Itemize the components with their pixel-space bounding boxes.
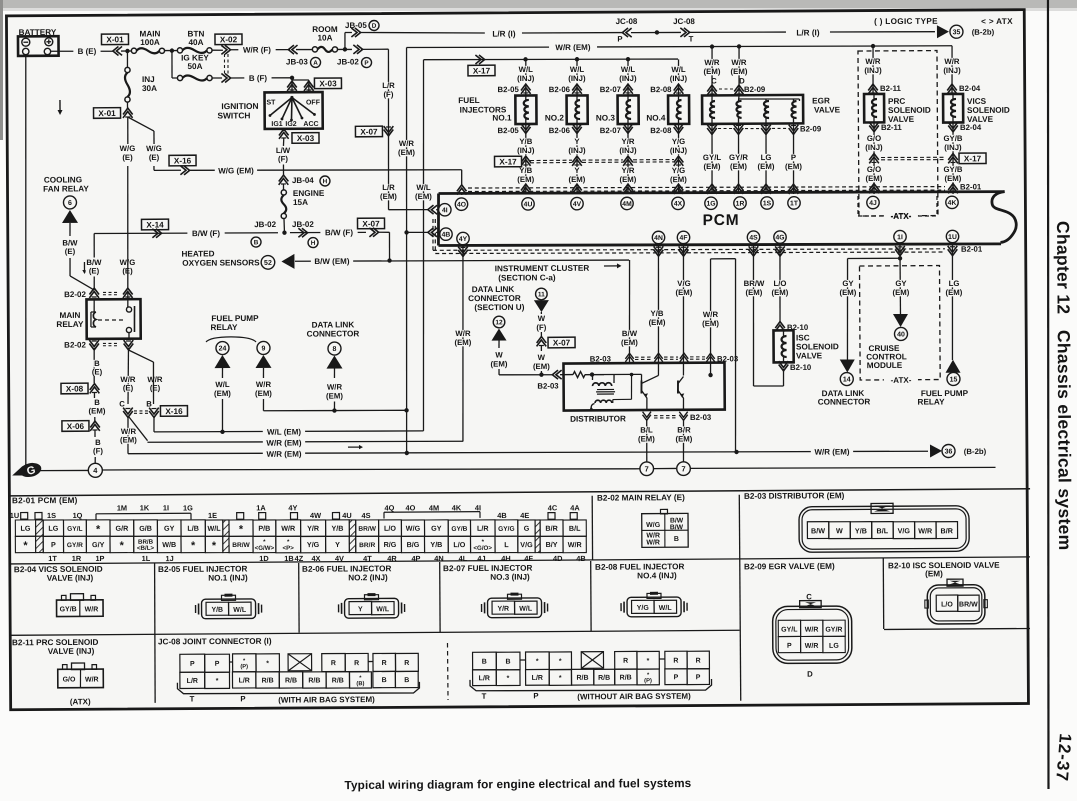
svg-text:GY/B: GY/B [943,134,962,143]
svg-text:12-37: 12-37 [1052,733,1075,783]
svg-text:15: 15 [950,377,958,384]
svg-text:4A: 4A [570,503,580,512]
svg-text:*: * [559,675,562,682]
svg-text:W/G: W/G [120,144,136,153]
wire B/W(E) to main relay [69,258,71,276]
svg-text:B/L: B/L [640,425,653,434]
svg-text:P: P [674,674,679,681]
svg-text:1G: 1G [706,201,715,208]
svg-text:V/G: V/G [677,279,690,288]
svg-text:B2-08: B2-08 [650,126,672,135]
EGR bottom bus B2-09 [707,125,717,131]
svg-text:(EM): (EM) [731,67,748,76]
svg-text:JC-08: JC-08 [616,17,638,26]
distributor transistor Q2 [682,364,684,376]
svg-text:X-07: X-07 [553,338,571,347]
PCM pin 1T [788,197,800,209]
svg-text:(INJ): (INJ) [517,146,535,155]
wires B(F) into ignition switch [291,78,293,93]
svg-text:1A: 1A [256,503,266,512]
connector X-16 upper [154,169,181,171]
flow arrow right [348,446,360,448]
svg-text:(B-2b): (B-2b) [972,28,995,37]
svg-text:(EM): (EM) [704,67,721,76]
svg-text:FUEL PUMP: FUEL PUMP [211,314,259,323]
data link connector pin 14 [840,359,855,372]
svg-text:R/B: R/B [332,677,344,684]
svg-text:Y/R: Y/R [621,166,634,175]
svg-text:GY/R: GY/R [729,153,748,162]
svg-text:B2-11: B2-11 [880,84,902,93]
svg-text:Y: Y [358,606,363,613]
distributor transistor Q1 [657,363,659,375]
svg-text:CONNECTOR: CONNECTOR [818,397,871,406]
svg-text:B2-02: B2-02 [64,340,86,349]
svg-text:W/R (EM): W/R (EM) [555,43,590,52]
svg-text:1R: 1R [736,201,745,208]
svg-text:4D: 4D [553,554,563,563]
svg-text:GY/B: GY/B [451,526,467,533]
svg-text:HEATED: HEATED [181,249,214,258]
wire junction to W/R vertical [334,409,406,412]
svg-text:VALVE: VALVE [796,351,823,360]
wire B/L (EM) to ground pin 7 [646,419,648,462]
fuel injector NO.2 (B2-06) [576,59,578,82]
PCM pin 4K [946,196,958,208]
svg-text:(E): (E) [122,266,133,275]
connector X-17 right [959,153,986,164]
svg-text:SOLENOID: SOLENOID [888,106,931,115]
svg-text:(EM): (EM) [88,406,105,415]
svg-text:JB-02: JB-02 [292,220,314,229]
wire battery negative to ground [23,55,28,470]
svg-text:W/R: W/R [805,643,819,650]
svg-text:R/B: R/B [620,675,632,682]
svg-text:W/R: W/R [704,58,720,67]
svg-text:B (E): B (E) [78,47,97,56]
svg-text:P: P [190,661,195,668]
svg-text:4X: 4X [674,201,683,208]
svg-text:L/R: L/R [239,677,250,684]
svg-text:PCM: PCM [703,212,740,229]
svg-text:1K: 1K [140,503,150,512]
PCM pin 4O [455,198,467,210]
distributor connector tab [871,503,893,513]
svg-text:NO.2: NO.2 [545,114,565,123]
svg-text:X-16: X-16 [174,156,192,165]
svg-text:(EM): (EM) [120,435,137,444]
svg-text:G: G [524,524,530,533]
B2-03 dashed bus [625,353,633,359]
svg-text:W/R (EM): W/R (EM) [266,438,301,447]
svg-text:Y/G: Y/G [672,166,685,175]
svg-text:Y/R: Y/R [307,524,320,533]
wire B/W(EM) to distributor [629,260,630,364]
svg-text:(WITH AIR BAG SYSTEM): (WITH AIR BAG SYSTEM) [278,695,375,705]
svg-text:100A: 100A [140,38,160,47]
svg-text:1J: 1J [166,554,174,563]
svg-text:CONNECTOR: CONNECTOR [307,329,360,338]
svg-text:Y/B: Y/B [331,524,343,533]
svg-text:4N: 4N [654,235,663,242]
svg-text:(F): (F) [536,323,546,332]
svg-text:(INJ): (INJ) [568,74,586,83]
svg-text:DATA LINK: DATA LINK [472,285,515,294]
wire fuse to junction [164,49,179,51]
svg-text:4F: 4F [524,554,533,563]
svg-text:6: 6 [68,200,72,207]
connector X-02 [215,34,242,45]
svg-text:12: 12 [495,319,503,326]
svg-text:RELAY: RELAY [917,397,945,406]
svg-text:A: A [313,60,318,67]
svg-text:Y/G: Y/G [637,605,650,612]
svg-text:B: B [404,677,409,684]
svg-text:30A: 30A [142,84,157,93]
svg-text:MODULE: MODULE [867,361,903,370]
svg-text:(EM): (EM) [398,148,415,157]
svg-text:(E): (E) [65,247,76,256]
svg-text:PRC: PRC [888,97,905,106]
svg-text:(EM): (EM) [785,162,802,171]
svg-text:-ATX-: -ATX- [891,212,912,221]
svg-text:(INJ): (INJ) [865,143,883,152]
svg-text:INJ: INJ [142,75,155,84]
svg-text:W/L: W/L [671,65,686,74]
connector X-17 top [468,65,495,76]
svg-text:R/G: R/G [384,540,397,549]
svg-text:(EM): (EM) [704,162,721,171]
svg-text:(EM): (EM) [619,175,636,184]
svg-text:W/R: W/R [327,382,343,391]
svg-text:P: P [533,691,538,700]
svg-text:NO.4 (INJ): NO.4 (INJ) [637,571,677,580]
connector X-03 lower [283,129,285,131]
svg-text:B2-04: B2-04 [959,84,981,93]
wire W/R (F) [230,48,290,51]
svg-text:W/R: W/R [85,606,99,613]
svg-text:(EM): (EM) [533,362,550,371]
svg-text:4F: 4F [680,235,688,242]
svg-text:(EM): (EM) [621,338,638,347]
svg-text:Y/R: Y/R [621,137,634,146]
svg-text:(EM): (EM) [415,192,432,201]
svg-text:(B): (B) [356,681,364,687]
svg-text:1I: 1I [897,234,903,241]
svg-text:W/R: W/R [568,540,583,549]
svg-text:L/R: L/R [479,675,490,682]
svg-text:B2-01: B2-01 [961,245,983,254]
svg-text:9: 9 [262,345,266,352]
svg-text:W/R: W/R [399,139,415,148]
svg-text:R: R [623,658,628,665]
svg-text:B2-10: B2-10 [790,363,812,372]
svg-text:W/G: W/G [146,144,162,153]
svg-text:(EM): (EM) [702,319,719,328]
svg-text:*: * [507,675,510,682]
fuel pump relay pin 15 [945,360,960,373]
svg-text:(E): (E) [123,383,134,392]
svg-text:B/L: B/L [569,524,581,533]
wire from B down [153,417,155,432]
svg-text:(EM): (EM) [491,359,508,368]
svg-text:B2-07: B2-07 [600,85,621,94]
svg-text:1R: 1R [72,554,82,563]
svg-text:L/O: L/O [384,524,396,533]
svg-text:L/R: L/R [532,675,543,682]
W/R loop to distributor [711,258,736,260]
svg-text:NO.3: NO.3 [596,114,616,123]
PCM connector pin grid [15,520,35,537]
wire 1U LG to fuel pump relay [948,246,958,252]
svg-text:(EM): (EM) [638,434,655,443]
svg-text:CONNECTOR: CONNECTOR [468,294,521,303]
svg-text:(EM): (EM) [925,569,943,578]
junction JB-05 riser [344,32,346,49]
svg-text:L: L [504,540,509,549]
svg-text:4M: 4M [429,503,439,512]
svg-text:4X: 4X [311,554,320,563]
svg-text:L/O: L/O [941,601,953,608]
PCM pin 1G [705,197,717,209]
svg-text:X-17: X-17 [473,66,491,75]
wire W/G (EM) [189,169,462,172]
svg-text:JB-05: JB-05 [345,21,367,30]
EGR valve B2-09 [711,47,714,96]
svg-text:BR/W: BR/W [232,542,250,549]
svg-text:GY/B: GY/B [943,165,962,174]
svg-text:4Y: 4Y [288,503,297,512]
arrow to 36 (B-2b) [930,444,942,457]
svg-text:4O: 4O [457,202,466,209]
svg-text:4B: 4B [576,554,586,563]
svg-text:50A: 50A [187,62,202,71]
svg-text:(INJ): (INJ) [619,74,637,83]
PCM dashed bus above [468,185,945,189]
svg-text:(EM): (EM) [568,175,585,184]
svg-text:JC-08 JOINT CONNECTOR (I): JC-08 JOINT CONNECTOR (I) [158,637,272,647]
labels B/W(E) W/G(E) above main relay [86,259,103,267]
svg-text:B/G: B/G [407,540,420,549]
svg-text:V/G: V/G [898,526,911,535]
fuel pump relay pin 24 [216,341,229,354]
wire to JB-02 junction [283,219,285,233]
svg-text:1P: 1P [95,554,104,563]
svg-text:1U: 1U [10,511,20,520]
svg-text:1I: 1I [163,503,169,512]
svg-text:4B: 4B [497,511,507,520]
wire L/W (F) [282,138,284,146]
svg-text:W/G: W/G [406,524,421,533]
svg-text:X-07: X-07 [360,127,378,136]
svg-text:(INJ): (INJ) [670,146,688,155]
svg-text:C: C [119,400,125,409]
svg-text:GY: GY [431,524,442,533]
arrow to 35 (B-2b) [937,25,949,38]
svg-text:GY/G: GY/G [498,526,515,533]
svg-text:(EM): (EM) [865,174,882,183]
svg-text:W: W [495,351,503,360]
svg-text:X-01: X-01 [106,35,124,44]
PCM right curvy edge [992,192,1016,243]
svg-text:(EM): (EM) [675,434,692,443]
scan edge artifacts [0,0,1077,8]
svg-text:4U: 4U [524,201,533,208]
svg-text:L/O: L/O [773,279,786,288]
connector X-14 [141,219,168,230]
PCM pin 4N [652,231,664,243]
PCM pin 4V [571,197,583,209]
svg-text:(EM): (EM) [758,162,775,171]
svg-text:W/R (EM): W/R (EM) [266,450,301,459]
svg-text:ENGINE: ENGINE [293,189,325,198]
svg-text:4K: 4K [948,200,957,207]
connector X-06 [62,421,89,432]
svg-text:(F): (F) [93,446,103,455]
PCM pin 4F [677,231,689,243]
svg-text:T: T [190,695,195,704]
svg-text:G/B: G/B [139,524,152,533]
pin bracket 1M-1G [96,512,191,515]
wire L/R(F) vertical [388,49,390,210]
svg-text:FUEL: FUEL [458,96,479,105]
svg-text:4M: 4M [622,201,632,208]
svg-text:JB-03: JB-03 [286,57,308,66]
svg-text:4I: 4I [442,207,448,214]
svg-text:W/B: W/B [162,540,176,549]
svg-text:VICS: VICS [967,97,987,106]
B2-11 connector graphic [58,669,104,688]
svg-text:FAN RELAY: FAN RELAY [43,184,89,193]
wire B/W (EM) [295,259,629,262]
svg-text:B: B [254,239,259,246]
svg-text:W/L: W/L [207,524,221,533]
svg-text:ISC: ISC [796,333,810,342]
svg-text:4N: 4N [434,554,444,563]
svg-text:B/W: B/W [811,526,825,535]
B2-04 connector graphic [57,600,104,617]
wire W/G(E) right leg [153,166,155,170]
svg-text:(EM): (EM) [326,391,343,400]
X-17 dashed bus right [881,156,946,159]
svg-text:4C: 4C [548,503,558,512]
svg-text:R/B: R/B [598,675,610,682]
svg-text:7: 7 [681,464,685,473]
svg-text:X-07: X-07 [362,219,380,228]
wire 4G L/O to ISC [775,246,785,252]
connector X-03 upper [314,78,341,89]
svg-text:G/Y: G/Y [92,540,105,549]
svg-text:T: T [689,34,694,43]
svg-text:W/R: W/R [646,539,660,546]
svg-text:Y: Y [574,166,580,175]
svg-text:L/R: L/R [382,81,395,90]
svg-text:P: P [791,153,796,162]
svg-text:(EM): (EM) [380,192,397,201]
svg-text:(EM): (EM) [892,288,909,297]
svg-text:4Y: 4Y [459,236,468,243]
svg-text:*: * [266,660,269,667]
svg-text:Y: Y [335,540,340,549]
svg-text:(SECTION C-a): (SECTION C-a) [498,273,556,282]
svg-text:COOLING: COOLING [44,175,82,184]
svg-text:DISTRIBUTOR: DISTRIBUTOR [570,414,626,423]
svg-text:B2-09: B2-09 [744,85,766,94]
wire B (F) to ignition switch [230,77,292,80]
svg-text:B2-03: B2-03 [690,413,712,422]
svg-text:4P: 4P [411,554,420,563]
svg-text:24: 24 [219,346,227,353]
svg-text:36: 36 [945,448,953,455]
svg-text:<P>: <P> [283,545,295,552]
PCM pin 4G [774,231,786,243]
svg-text:W: W [836,526,843,535]
svg-text:R/B: R/B [576,675,588,682]
svg-text:P: P [215,661,220,668]
fuel injector NO.3 (B2-07) [627,59,629,82]
wire 4N Y/B [654,246,664,252]
svg-text:1D: 1D [259,554,269,563]
wire L/R(EM) into PCM 4I [389,208,430,210]
svg-text:GY: GY [895,279,907,288]
wire 4F V/G [679,246,689,252]
pin bracket 4Q-4I [384,511,480,514]
svg-text:LG: LG [949,279,960,288]
wire B/R (EM) to ground pin 7 [682,419,685,462]
svg-text:LG: LG [761,153,772,162]
svg-text:Chapter 12 Chassis electrica: Chapter 12 Chassis electrical system [1053,221,1075,551]
svg-text:Y/B: Y/B [430,540,442,549]
svg-text:X-06: X-06 [67,422,85,431]
svg-text:B: B [146,399,152,408]
connector X-01 lower [126,102,128,109]
PCM pin 4J [867,196,879,208]
svg-text:Y: Y [574,137,580,146]
svg-text:14: 14 [843,376,851,383]
svg-text:4U: 4U [342,511,352,520]
svg-text:( ) LOGIC TYPE: ( ) LOGIC TYPE [874,17,938,26]
PCM pin 4M [621,197,633,209]
JC-08 tray without airbag [470,678,712,691]
cruise control branch [899,258,901,314]
wire W/R (EM) top long [407,47,550,48]
svg-text:RELAY: RELAY [210,323,238,332]
PCM pin 1U [946,230,958,242]
svg-text:DATA LINK: DATA LINK [312,320,355,329]
svg-text:(ATX): (ATX) [70,697,91,706]
svg-text:B2-02: B2-02 [64,290,86,299]
svg-text:L/R (I): L/R (I) [796,28,820,37]
svg-text:4O: 4O [405,503,415,512]
wire W/R (EM) long bottom [128,449,928,456]
svg-text:R/B: R/B [285,677,297,684]
svg-text:B/W (F): B/W (F) [325,228,353,237]
distributor box [563,363,724,411]
svg-text:B/R: B/R [677,425,691,434]
wire W/G(E) left leg to main relay [127,166,128,289]
svg-text:B2-05: B2-05 [498,85,520,94]
svg-text:B/W (EM): B/W (EM) [314,257,349,266]
svg-text:4J: 4J [869,200,877,207]
svg-text:JC-08: JC-08 [673,17,695,26]
fuse IG KEY 50A branch [171,51,173,78]
svg-text:INSTRUMENT CLUSTER: INSTRUMENT CLUSTER [495,264,590,274]
svg-text:B2-05: B2-05 [497,126,519,135]
svg-text:(EM): (EM) [771,288,788,297]
connector X-17 injector bus [495,156,522,167]
svg-text:(EM): (EM) [517,175,534,184]
svg-text:LG: LG [48,524,58,533]
